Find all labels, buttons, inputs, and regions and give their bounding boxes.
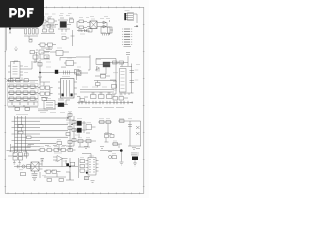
wire stub right edge W9	[108, 149, 140, 152]
inrush thermistor RT1	[38, 43, 56, 48]
comparator U9 triangle	[53, 153, 68, 162]
opto feedback U3 cluster	[30, 50, 69, 63]
aux label N1	[126, 53, 130, 67]
snubber box K1	[60, 58, 77, 66]
opto U5	[76, 55, 90, 76]
bridge rectifier D1 cluster	[55, 18, 74, 32]
dense PSU block top row	[7, 79, 39, 82]
frame zone ticks left	[5, 25, 7, 187]
reference designator text labels (tiny)	[9, 14, 137, 180]
small parts row AR	[47, 172, 74, 181]
RC chain R12	[98, 121, 114, 143]
dense PSU block left rows	[8, 85, 38, 110]
electrolytic C10 stack	[119, 64, 140, 96]
misc interconnect wires	[14, 46, 66, 166]
junction dark block	[55, 70, 58, 74]
cluster fuse/filter F1	[38, 18, 57, 34]
transistor pair Q4 Q5	[74, 121, 96, 138]
PSU right column parts V	[38, 82, 53, 101]
small glyph near W1	[62, 36, 75, 40]
jumper row JP1	[77, 101, 133, 108]
aux transformer T3	[14, 159, 44, 181]
primary snubber R2 C2	[77, 20, 90, 31]
relay K2 dark block	[131, 153, 139, 166]
frame zone ticks bottom	[8, 193, 139, 195]
address bus lines W5	[40, 117, 73, 143]
inverter circuit D8	[118, 120, 141, 150]
column of parts right of bus Q3	[66, 112, 78, 150]
IC U4 with stub pins	[8, 61, 23, 82]
left vertical wire W3	[39, 60, 41, 85]
sheet frame border	[5, 7, 144, 193]
capacitor bank C3 row	[77, 29, 92, 33]
connector header CN2 ladder	[122, 27, 138, 47]
main transformer T2 big box	[58, 79, 77, 99]
filter caps row R10	[110, 61, 132, 67]
module box M1	[120, 69, 127, 93]
wire from U4 to right	[23, 63, 32, 69]
secondary diodes D2 cluster	[101, 20, 112, 35]
bottom bus W8	[31, 158, 78, 180]
dense PSU block outline	[8, 84, 39, 107]
connector J1 vertical caps below badge	[6, 28, 38, 51]
bottom boxes R16	[44, 170, 66, 177]
MCU U7 ribbon block	[12, 115, 41, 153]
frame zone ticks top	[8, 7, 139, 9]
output bus wires W4	[77, 90, 114, 102]
small cluster near right W6	[112, 143, 122, 149]
PDF badge	[0, 0, 44, 28]
glyph row above bottom W7	[38, 149, 76, 152]
regulator U2 with pins	[101, 27, 113, 36]
bottom IC U10	[79, 147, 105, 183]
secondary rect cluster D6	[44, 100, 70, 109]
connector header CN1	[124, 11, 138, 27]
main bus wire W2	[39, 67, 79, 80]
output node cluster AP	[100, 149, 124, 165]
PFC block U6	[95, 59, 116, 89]
right cluster X1	[110, 80, 128, 100]
mid components R8 C9	[94, 81, 116, 88]
component D4 on left wire	[38, 63, 42, 82]
transformer T1 (X-box)	[87, 21, 101, 29]
bottom-left wiring and cap grid U8	[7, 144, 37, 164]
frame zone ticks right	[143, 25, 145, 187]
long wire vertical W1	[72, 30, 74, 46]
bottom-left of mid cluster R14	[76, 140, 96, 148]
parts under bus AI	[57, 142, 62, 150]
